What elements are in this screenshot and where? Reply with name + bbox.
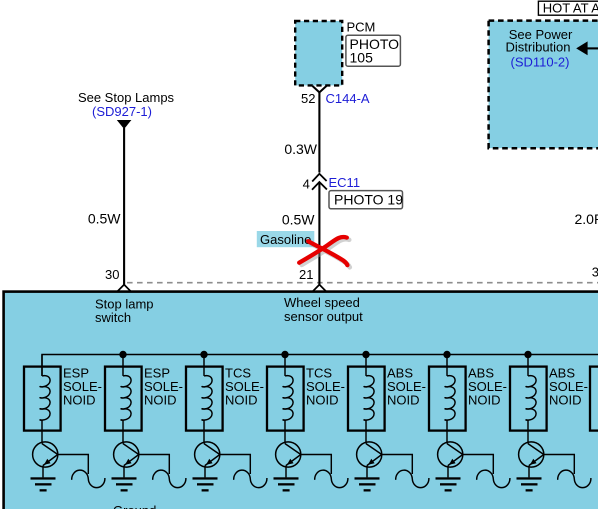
svg-text:NOID: NOID bbox=[306, 392, 339, 407]
svg-text:HOT AT AL: HOT AT AL bbox=[543, 1, 598, 16]
PCM module box bbox=[295, 21, 342, 85]
svg-text:30: 30 bbox=[105, 267, 119, 282]
ground G7 bbox=[517, 477, 542, 491]
solenoid ESP SOLENOID 2 box bbox=[105, 367, 142, 431]
junction dot node at solenoid 7 bbox=[524, 351, 531, 358]
entry chevron pin 30 bbox=[117, 285, 131, 292]
wire: bus drop to solenoid 2 bbox=[122, 355, 124, 376]
ECU/HECU module box bbox=[4, 292, 598, 509]
power distribution box bbox=[489, 21, 598, 149]
wire: solenoid 6 to transistor Q6 bbox=[446, 420, 448, 443]
wire: solenoid 2 to transistor Q2 bbox=[122, 420, 124, 443]
junction dot node at solenoid 3 bbox=[200, 351, 207, 358]
junction dot node at solenoid 4 bbox=[281, 351, 288, 358]
ground G2 bbox=[112, 477, 137, 491]
svg-text:EC11: EC11 bbox=[329, 175, 361, 190]
svg-text:NOID: NOID bbox=[144, 392, 177, 407]
dashed separator line bbox=[127, 282, 598, 284]
coil of ABS solenoid 6 bbox=[445, 376, 455, 421]
transistor Q3 bbox=[195, 442, 220, 467]
coil of TCS solenoid 3 bbox=[202, 376, 212, 421]
wire: EC11 to pin 21 bbox=[318, 182, 320, 285]
wire: emitter of Q4 to ground bbox=[285, 466, 287, 478]
PHOTO 19 callout box bbox=[329, 191, 403, 209]
junction dot node at solenoid 5 bbox=[362, 351, 369, 358]
svg-text:Wheel speed: Wheel speed bbox=[284, 295, 360, 310]
wire-break wave symbol 5 bbox=[396, 470, 429, 488]
transistor Q4 bbox=[276, 442, 301, 467]
svg-text:0.5W: 0.5W bbox=[88, 211, 121, 227]
svg-text:Ground: Ground bbox=[113, 503, 156, 509]
svg-text:52: 52 bbox=[301, 91, 315, 106]
ground G4 bbox=[274, 477, 299, 491]
wire: stop lamp switch feed bbox=[123, 128, 125, 285]
svg-text:Distribution: Distribution bbox=[505, 40, 570, 55]
wire: solenoid 4 to transistor Q4 bbox=[284, 420, 286, 443]
transistor Q2 bbox=[114, 442, 139, 467]
wire: base of Q7 bbox=[544, 455, 575, 475]
svg-text:See Stop Lamps: See Stop Lamps bbox=[78, 90, 175, 105]
wire: base of Q6 bbox=[463, 455, 494, 475]
svg-text:NOID: NOID bbox=[549, 392, 582, 407]
svg-text:4: 4 bbox=[303, 177, 310, 192]
solenoid TCS SOLENOID 3 box bbox=[186, 367, 223, 431]
wire: base of Q1 bbox=[58, 455, 89, 475]
entry chevron pin 21 bbox=[313, 285, 327, 292]
wire: solenoid 1 to transistor Q1 bbox=[41, 420, 43, 443]
wire: emitter of Q5 to ground bbox=[366, 466, 368, 478]
svg-text:NOID: NOID bbox=[225, 392, 258, 407]
svg-text:(SD110-2): (SD110-2) bbox=[510, 55, 569, 70]
deleted-wire X mark bbox=[299, 237, 350, 267]
wire-break wave symbol 4 bbox=[315, 470, 348, 488]
junction dot node at solenoid 2 bbox=[119, 351, 126, 358]
solenoid TCS SOLENOID 4 box bbox=[267, 367, 304, 431]
wire: emitter of Q3 to ground bbox=[204, 466, 206, 478]
coil of ESP solenoid 1 bbox=[40, 376, 50, 421]
connector C144-A Y symbol bbox=[313, 86, 327, 92]
wire-break wave symbol 1 bbox=[72, 470, 105, 488]
solenoid ESP SOLENOID 1 box bbox=[24, 367, 61, 431]
solenoid box 8 (clipped) bbox=[590, 367, 598, 431]
wire: base of Q5 bbox=[382, 455, 413, 475]
svg-text:NOID: NOID bbox=[63, 392, 96, 407]
wire: bus drop to solenoid 4 bbox=[284, 355, 286, 376]
wire: base of Q4 bbox=[301, 455, 332, 475]
coil of ESP solenoid 2 bbox=[121, 376, 131, 421]
wire: solenoid 5 to transistor Q5 bbox=[365, 420, 367, 443]
svg-text:NOID: NOID bbox=[387, 392, 420, 407]
svg-text:C144-A: C144-A bbox=[326, 91, 370, 106]
ground G6 bbox=[436, 477, 461, 491]
wire: base of Q3 bbox=[220, 455, 251, 475]
PHOTO 105 callout box bbox=[346, 35, 401, 66]
wire-break wave symbol 6 bbox=[477, 470, 510, 488]
transistor Q5 bbox=[357, 442, 382, 467]
wire: bus drop to solenoid 1 bbox=[41, 355, 43, 376]
wire: emitter of Q1 to ground bbox=[42, 466, 44, 478]
ground G3 bbox=[193, 477, 218, 491]
svg-text:NOID: NOID bbox=[468, 392, 501, 407]
ground G1 bbox=[31, 477, 56, 491]
transistor Q7 bbox=[519, 442, 544, 467]
wire: internal bus bbox=[42, 355, 598, 376]
ground G5 bbox=[355, 477, 380, 491]
svg-text:31: 31 bbox=[592, 265, 598, 280]
wire: bus drop to solenoid 6 bbox=[446, 355, 448, 376]
svg-text:switch: switch bbox=[95, 310, 131, 325]
wire: power feed bbox=[587, 47, 598, 49]
wire: emitter of Q6 to ground bbox=[447, 466, 449, 478]
wire: emitter of Q2 to ground bbox=[123, 466, 125, 478]
svg-text:PCM: PCM bbox=[347, 19, 376, 34]
svg-text:sensor output: sensor output bbox=[284, 309, 363, 324]
wire: PCM to EC11 bbox=[318, 92, 320, 172]
svg-text:0.3W: 0.3W bbox=[284, 141, 317, 157]
wire: bus drop to solenoid 7 bbox=[527, 355, 529, 376]
wire: base of Q2 bbox=[139, 455, 170, 475]
wire: bus drop to solenoid 3 bbox=[203, 355, 205, 376]
arrow into power box bbox=[576, 41, 587, 55]
svg-text:105: 105 bbox=[350, 49, 374, 65]
solenoid ABS SOLENOID 5 box bbox=[348, 367, 385, 431]
svg-text:21: 21 bbox=[299, 267, 313, 282]
wire: solenoid 3 to transistor Q3 bbox=[203, 420, 205, 443]
junction dot node at solenoid 6 bbox=[443, 351, 450, 358]
wire-break wave symbol 3 bbox=[234, 470, 267, 488]
svg-text:Gasoline: Gasoline bbox=[260, 232, 311, 247]
HOT AT ALL TIMES box bbox=[538, 1, 598, 16]
svg-text:0.5W: 0.5W bbox=[282, 212, 315, 228]
coil of TCS solenoid 4 bbox=[283, 376, 293, 421]
wire-break wave symbol 7 bbox=[558, 470, 591, 488]
transistor Q6 bbox=[438, 442, 463, 467]
svg-text:2.0R: 2.0R bbox=[575, 211, 598, 227]
coil of ABS solenoid 7 bbox=[526, 376, 536, 421]
wire: solenoid 7 to transistor Q7 bbox=[527, 420, 529, 443]
connector EC11 chevrons bbox=[312, 174, 327, 190]
arrow from stop lamps bbox=[117, 120, 132, 129]
transistor Q1 bbox=[33, 442, 58, 467]
solenoid ABS SOLENOID 6 box bbox=[429, 367, 466, 431]
wire: emitter of Q7 to ground bbox=[528, 466, 530, 478]
node Gasoline highlight bbox=[257, 231, 315, 247]
svg-text:PHOTO 19: PHOTO 19 bbox=[334, 192, 403, 208]
wire-break wave symbol 2 bbox=[153, 470, 186, 488]
solenoid ABS SOLENOID 7 box bbox=[510, 367, 547, 431]
wire: bus drop to solenoid 5 bbox=[365, 355, 367, 376]
svg-text:(SD927-1): (SD927-1) bbox=[92, 104, 152, 119]
coil of ABS solenoid 5 bbox=[364, 376, 374, 421]
